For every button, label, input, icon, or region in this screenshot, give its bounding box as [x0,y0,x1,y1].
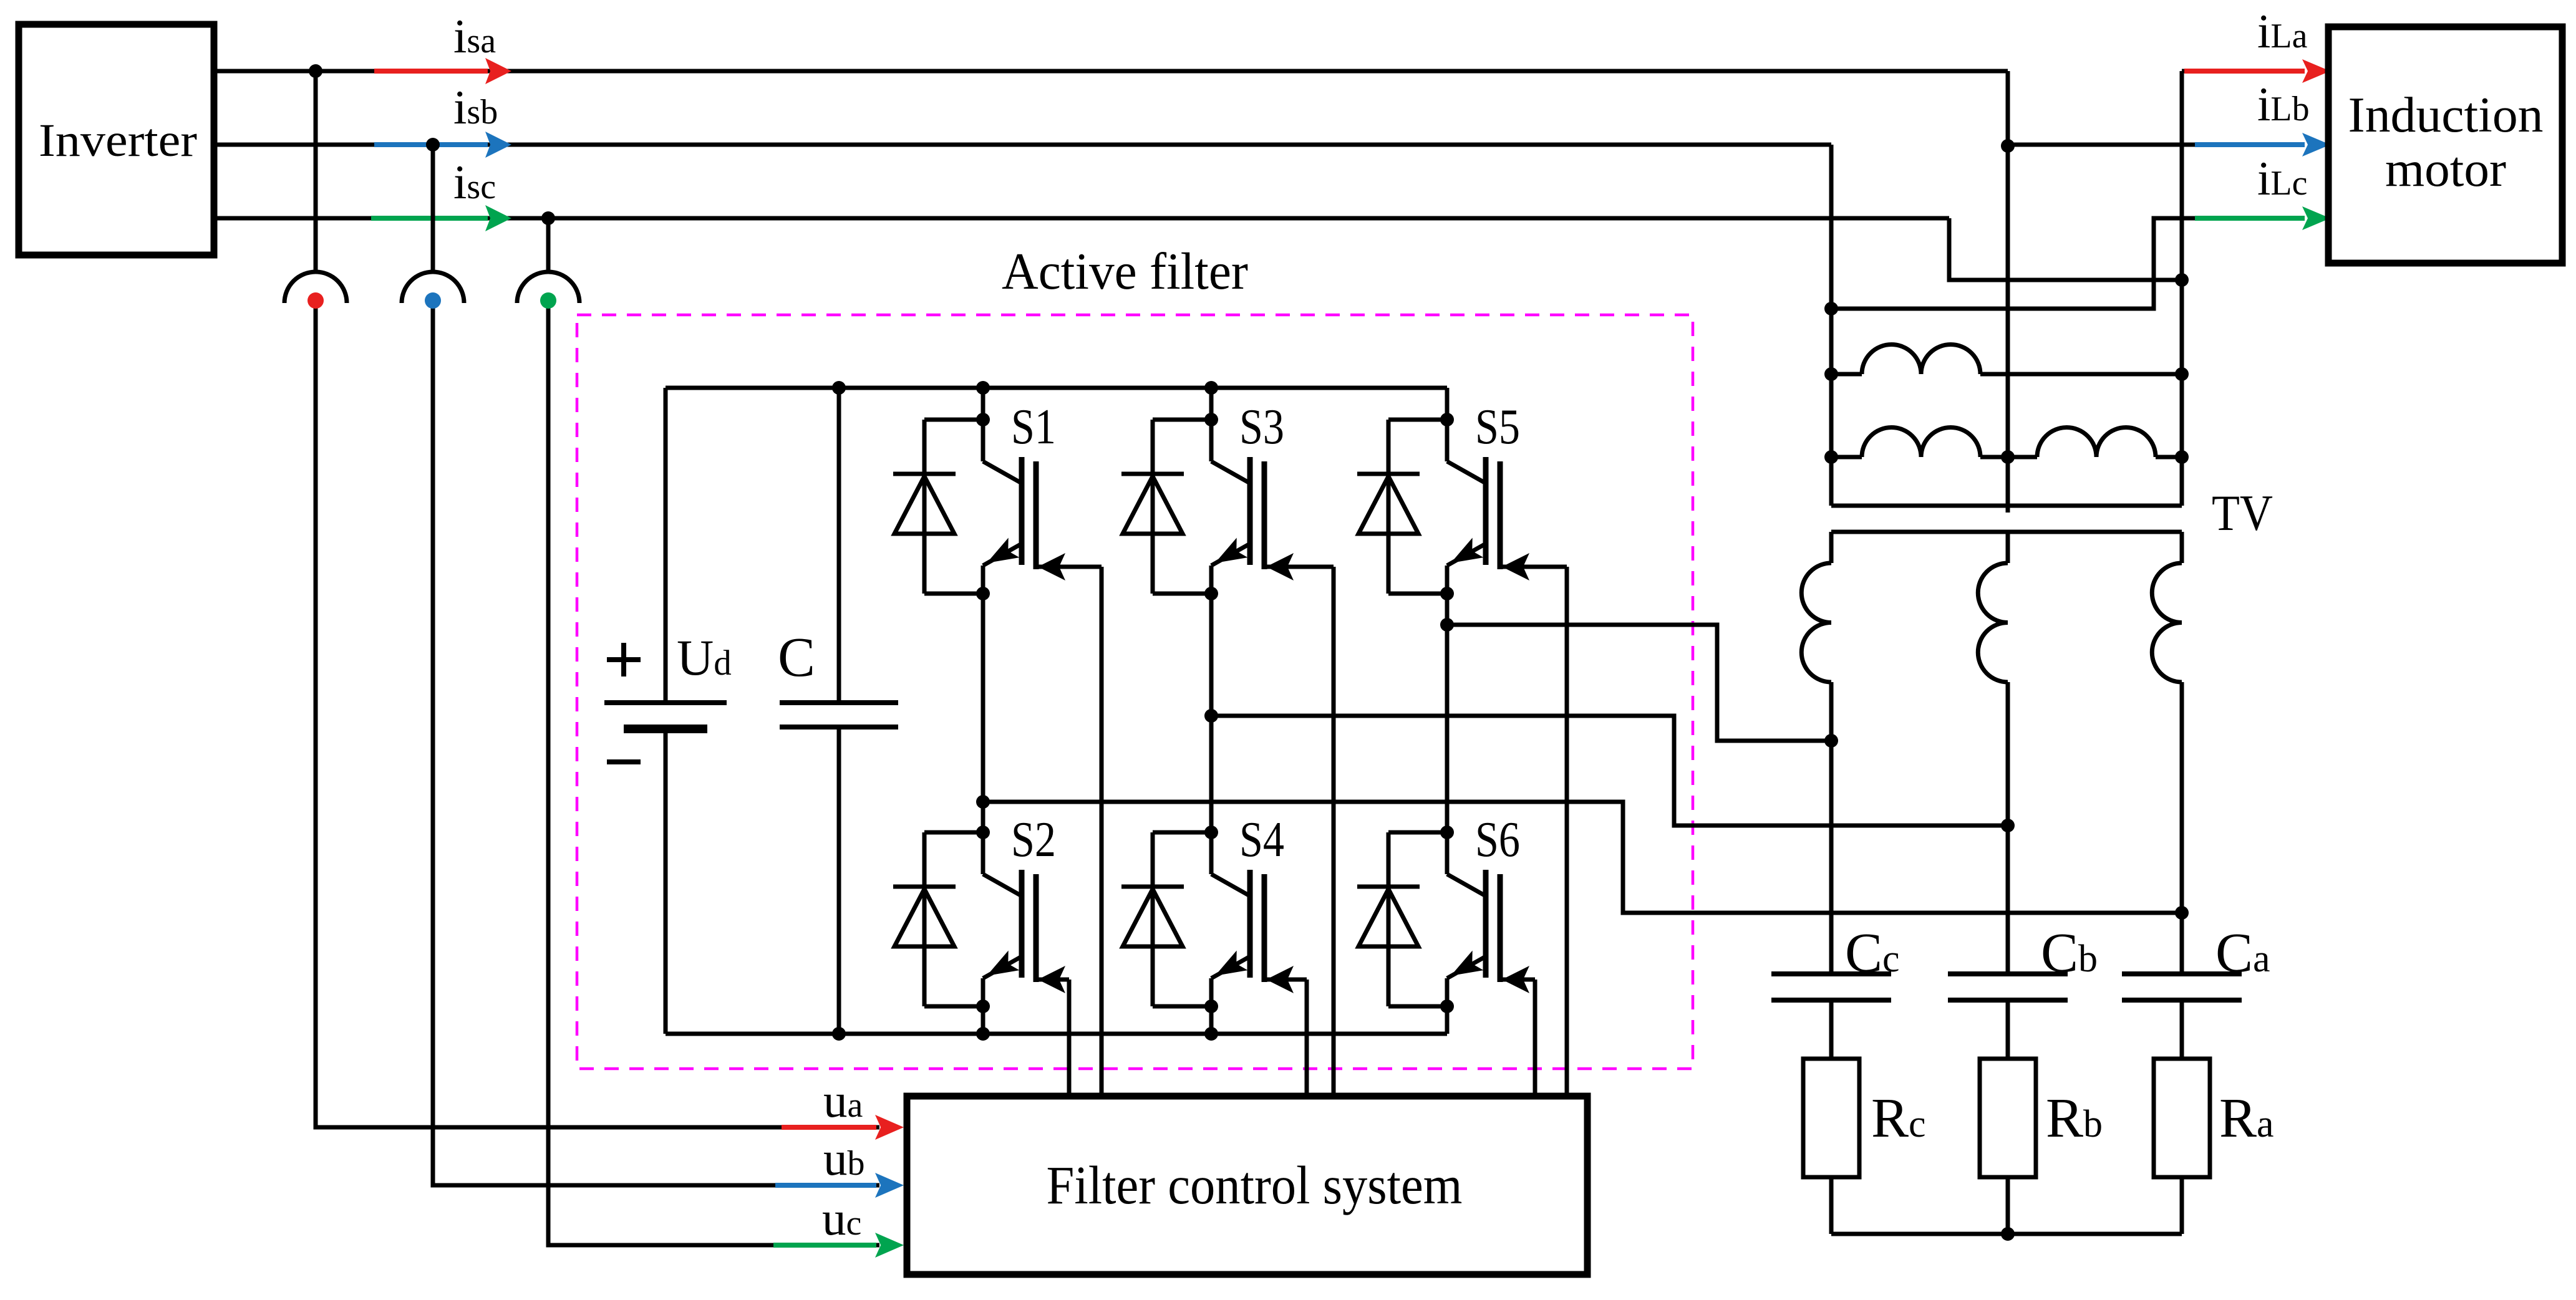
wire to induction motor phase b input [2008,143,2195,147]
junction TV primary mid [2001,450,2015,464]
wire TV secondary a down [2180,682,2184,974]
wire filter output a to TV secondary a [983,802,2182,913]
wire S4 emitter stub [1209,1006,1214,1034]
induction motor box [2328,27,2562,263]
junction phase c / CT c [541,211,555,225]
capacitor C plate bottom [780,725,898,729]
arrow iLc (green) [2195,216,2305,221]
svg-text:Inverter: Inverter [39,115,197,166]
wire Ca to Ra [2180,1000,2184,1059]
gate arrow of S5 [1502,553,1529,580]
junction S4 collector / diode [1204,826,1218,839]
transistor S4 (IGBT) [1209,832,1214,874]
svg-text:S5: S5 [1475,400,1520,455]
wire phase c tap down to CT c [546,218,551,273]
wire S3 gate drive [1264,565,1334,569]
wire Rc to common [1829,1177,1834,1234]
inductor TV secondary winding c [1829,532,1834,563]
battery Ud plate + (long) [604,700,727,705]
active filter boundary (dashed box) [577,315,1693,1069]
junction DC+ rail / S3 leg [1204,381,1218,395]
junction leg a output (node a) [976,795,990,809]
wire S6 gate drive [1500,978,1535,982]
wire filter output c to TV secondary c [1447,625,1831,741]
junction S5 collector / diode [1440,413,1454,426]
wire S2 gate drive [1036,978,1069,982]
svg-text:S3: S3 [1239,400,1284,455]
transistor S6 (IGBT) [1445,832,1450,874]
inductor TV secondary winding b [2006,532,2010,563]
wire CT b output down [433,301,879,1185]
diode D2 anti-parallel with S2 [924,831,983,835]
gate arrow of S4 [1266,966,1294,993]
junction node c / TV secondary c [1824,734,1838,748]
junction RC common bus [2001,1227,2015,1241]
svg-text:S1: S1 [1011,400,1056,455]
arrow ub (blue) into filter control system [775,1183,876,1188]
current transformer CT c (arc) [517,272,579,303]
diode D3 anti-parallel with S3 [1153,418,1211,422]
junction S4 emitter / diode [1204,999,1218,1013]
junction leg b output (node b) [1204,709,1218,723]
svg-text:C: C [778,627,815,688]
wire CT c output down [548,301,879,1245]
junction phase b / CT b [426,138,440,152]
wire S1 collector stub [981,388,985,420]
gate arrow of S3 [1266,553,1294,580]
transistor S2 (IGBT) [981,832,985,874]
wire Rb to common [2006,1177,2010,1234]
wire DC- rail [666,1032,1447,1036]
inverter box [19,24,214,255]
wire Cc to Rc [1829,1000,1834,1059]
junction TV primary winding 3 right [2175,450,2189,464]
junction DC+ rail / capacitor C [832,381,846,395]
CT a sensing dot (a phase color) [307,292,324,309]
resistor Ra [2154,1059,2210,1177]
junction DC- rail / S2 [976,1027,990,1041]
inductor TV secondary winding a [2180,532,2184,563]
wire phase a tap down to CT a [314,71,318,273]
wire phase c from inverter to corner [214,216,1949,221]
svg-text:Filter control system: Filter control system [1047,1155,1463,1215]
transistor S5 (IGBT) [1445,420,1450,461]
arrow isb (blue) on phase b [374,142,488,147]
wire phase c jog [1949,218,2182,280]
wire phase a from inverter to corner [214,69,2008,74]
wire TV primary right column to iLa [2180,71,2184,506]
junction TV primary winding 2 left [1824,450,1838,464]
wire TV primary mid column [2006,146,2010,513]
wire battery column top [664,388,668,703]
wire S3 collector stub [1209,388,1214,420]
wire phase b from inverter to corner [214,143,1831,147]
inductor TV primary winding 3 [2008,455,2037,460]
diode D6 anti-parallel with S6 [1388,831,1447,835]
wire leg c midpoint [1445,594,1450,832]
filter control system box [907,1096,1587,1274]
label - (battery negative) [607,759,641,764]
capacitor C plate top [780,700,898,705]
svg-text:Active filter: Active filter [1002,243,1248,301]
junction S6 collector / diode [1440,826,1454,839]
junction TV primary winding 1 left [1824,367,1838,381]
CT b sensing dot (b phase color) [425,292,441,309]
resistor Rc [1803,1059,1859,1177]
arrow iLb (blue) [2195,142,2305,147]
junction leg c output (node c) [1440,618,1454,632]
arrow uc (green) into filter control system [773,1243,876,1248]
svg-text:S4: S4 [1239,812,1284,867]
wire Cb to Rb [2006,1000,2010,1059]
wire CT a output down [316,301,879,1127]
junction S3 emitter / diode [1204,587,1218,600]
junction node b / TV secondary b [2001,819,2015,832]
junction TV primary winding 1 right [2175,367,2189,381]
wire TV primary left column [1829,309,1834,506]
svg-text:motor: motor [2385,142,2506,197]
arrow iLa (red) [2184,69,2305,74]
junction phase b / TV primary left column [1824,302,1838,315]
inductor TV primary winding 1 [1831,372,1862,377]
junction S2 emitter / diode [976,999,990,1013]
svg-text:S2: S2 [1011,812,1056,867]
transistor S3 (IGBT) [1209,420,1214,461]
wire leg a midpoint [981,594,985,832]
junction DC- rail / S4 [1204,1027,1218,1041]
wire filter output b to TV secondary b [1211,716,2008,826]
capacitor Cc plates [1771,971,1891,976]
svg-text:Induction: Induction [2348,88,2544,143]
wire Ra to common [2180,1177,2184,1234]
wire phase b corner down [1829,145,1834,309]
wire capacitor C column top [837,388,841,703]
diode D4 anti-parallel with S4 [1153,831,1211,835]
junction node a / TV secondary a [2175,906,2189,920]
gate arrow of S6 [1502,966,1529,993]
arrow isc (green) on phase c [371,216,488,221]
gate arrow of S1 [1038,553,1065,580]
capacitor Cb plates [1948,971,2068,976]
wire phase b tap down to CT b [431,145,435,273]
arrow isa (red) on phase a [374,69,488,74]
junction DC- rail / capacitor C [832,1027,846,1041]
resistor Rb [1980,1059,2036,1177]
inductor TV primary winding 2 [1831,455,1862,460]
wire battery column bottom [664,729,668,1034]
junction DC+ rail / S1 leg [976,381,990,395]
wire S6 emitter stub [1445,1006,1450,1034]
wire S5 collector stub [1445,388,1450,420]
wire TV secondary b down [2006,682,2010,974]
junction phase c / TV primary right column [2175,273,2189,287]
wire phase a corner down [2006,71,2010,146]
battery Ud plate - (short) [624,725,707,733]
wire TV secondary c down [1829,682,1834,974]
junction S2 collector / diode [976,826,990,839]
diode D5 anti-parallel with S5 [1388,418,1447,422]
label + (battery positive) [607,657,641,662]
wire TV secondary top bus [1831,530,2182,534]
svg-text:S6: S6 [1475,812,1520,867]
wire leg b midpoint [1209,594,1214,832]
junction phase a / CT a [309,64,322,78]
wire RC common bus [1831,1232,2182,1236]
transistor S1 (IGBT) [981,420,985,461]
arrow ua (red) into filter control system [782,1125,876,1130]
wire S4 gate drive [1264,978,1307,982]
junction S1 emitter / diode [976,587,990,600]
junction S3 collector / diode [1204,413,1218,426]
junction phase a / TV primary mid column [2001,139,2015,153]
junction S5 emitter / diode [1440,587,1454,600]
junction S1 collector / diode [976,413,990,426]
CT c sensing dot (c phase color) [540,292,556,309]
current transformer CT b (arc) [402,272,464,303]
current transformer CT a (arc) [284,272,347,303]
wire TV primary bottom bus [1831,504,2182,508]
capacitor Ca plates [2122,971,2242,976]
wire S1 gate drive [1036,565,1102,569]
wire TV row1 to iLc [1831,218,2195,309]
diode D1 anti-parallel with S1 [924,418,983,422]
svg-text:TV: TV [2212,484,2273,541]
junction S6 emitter / diode [1440,999,1454,1013]
gate arrow of S2 [1038,966,1065,993]
wire S2 emitter stub [981,1006,985,1034]
wire DC+ rail [666,386,1447,390]
wire capacitor C column bottom [837,727,841,1034]
wire S5 gate drive [1500,565,1567,569]
